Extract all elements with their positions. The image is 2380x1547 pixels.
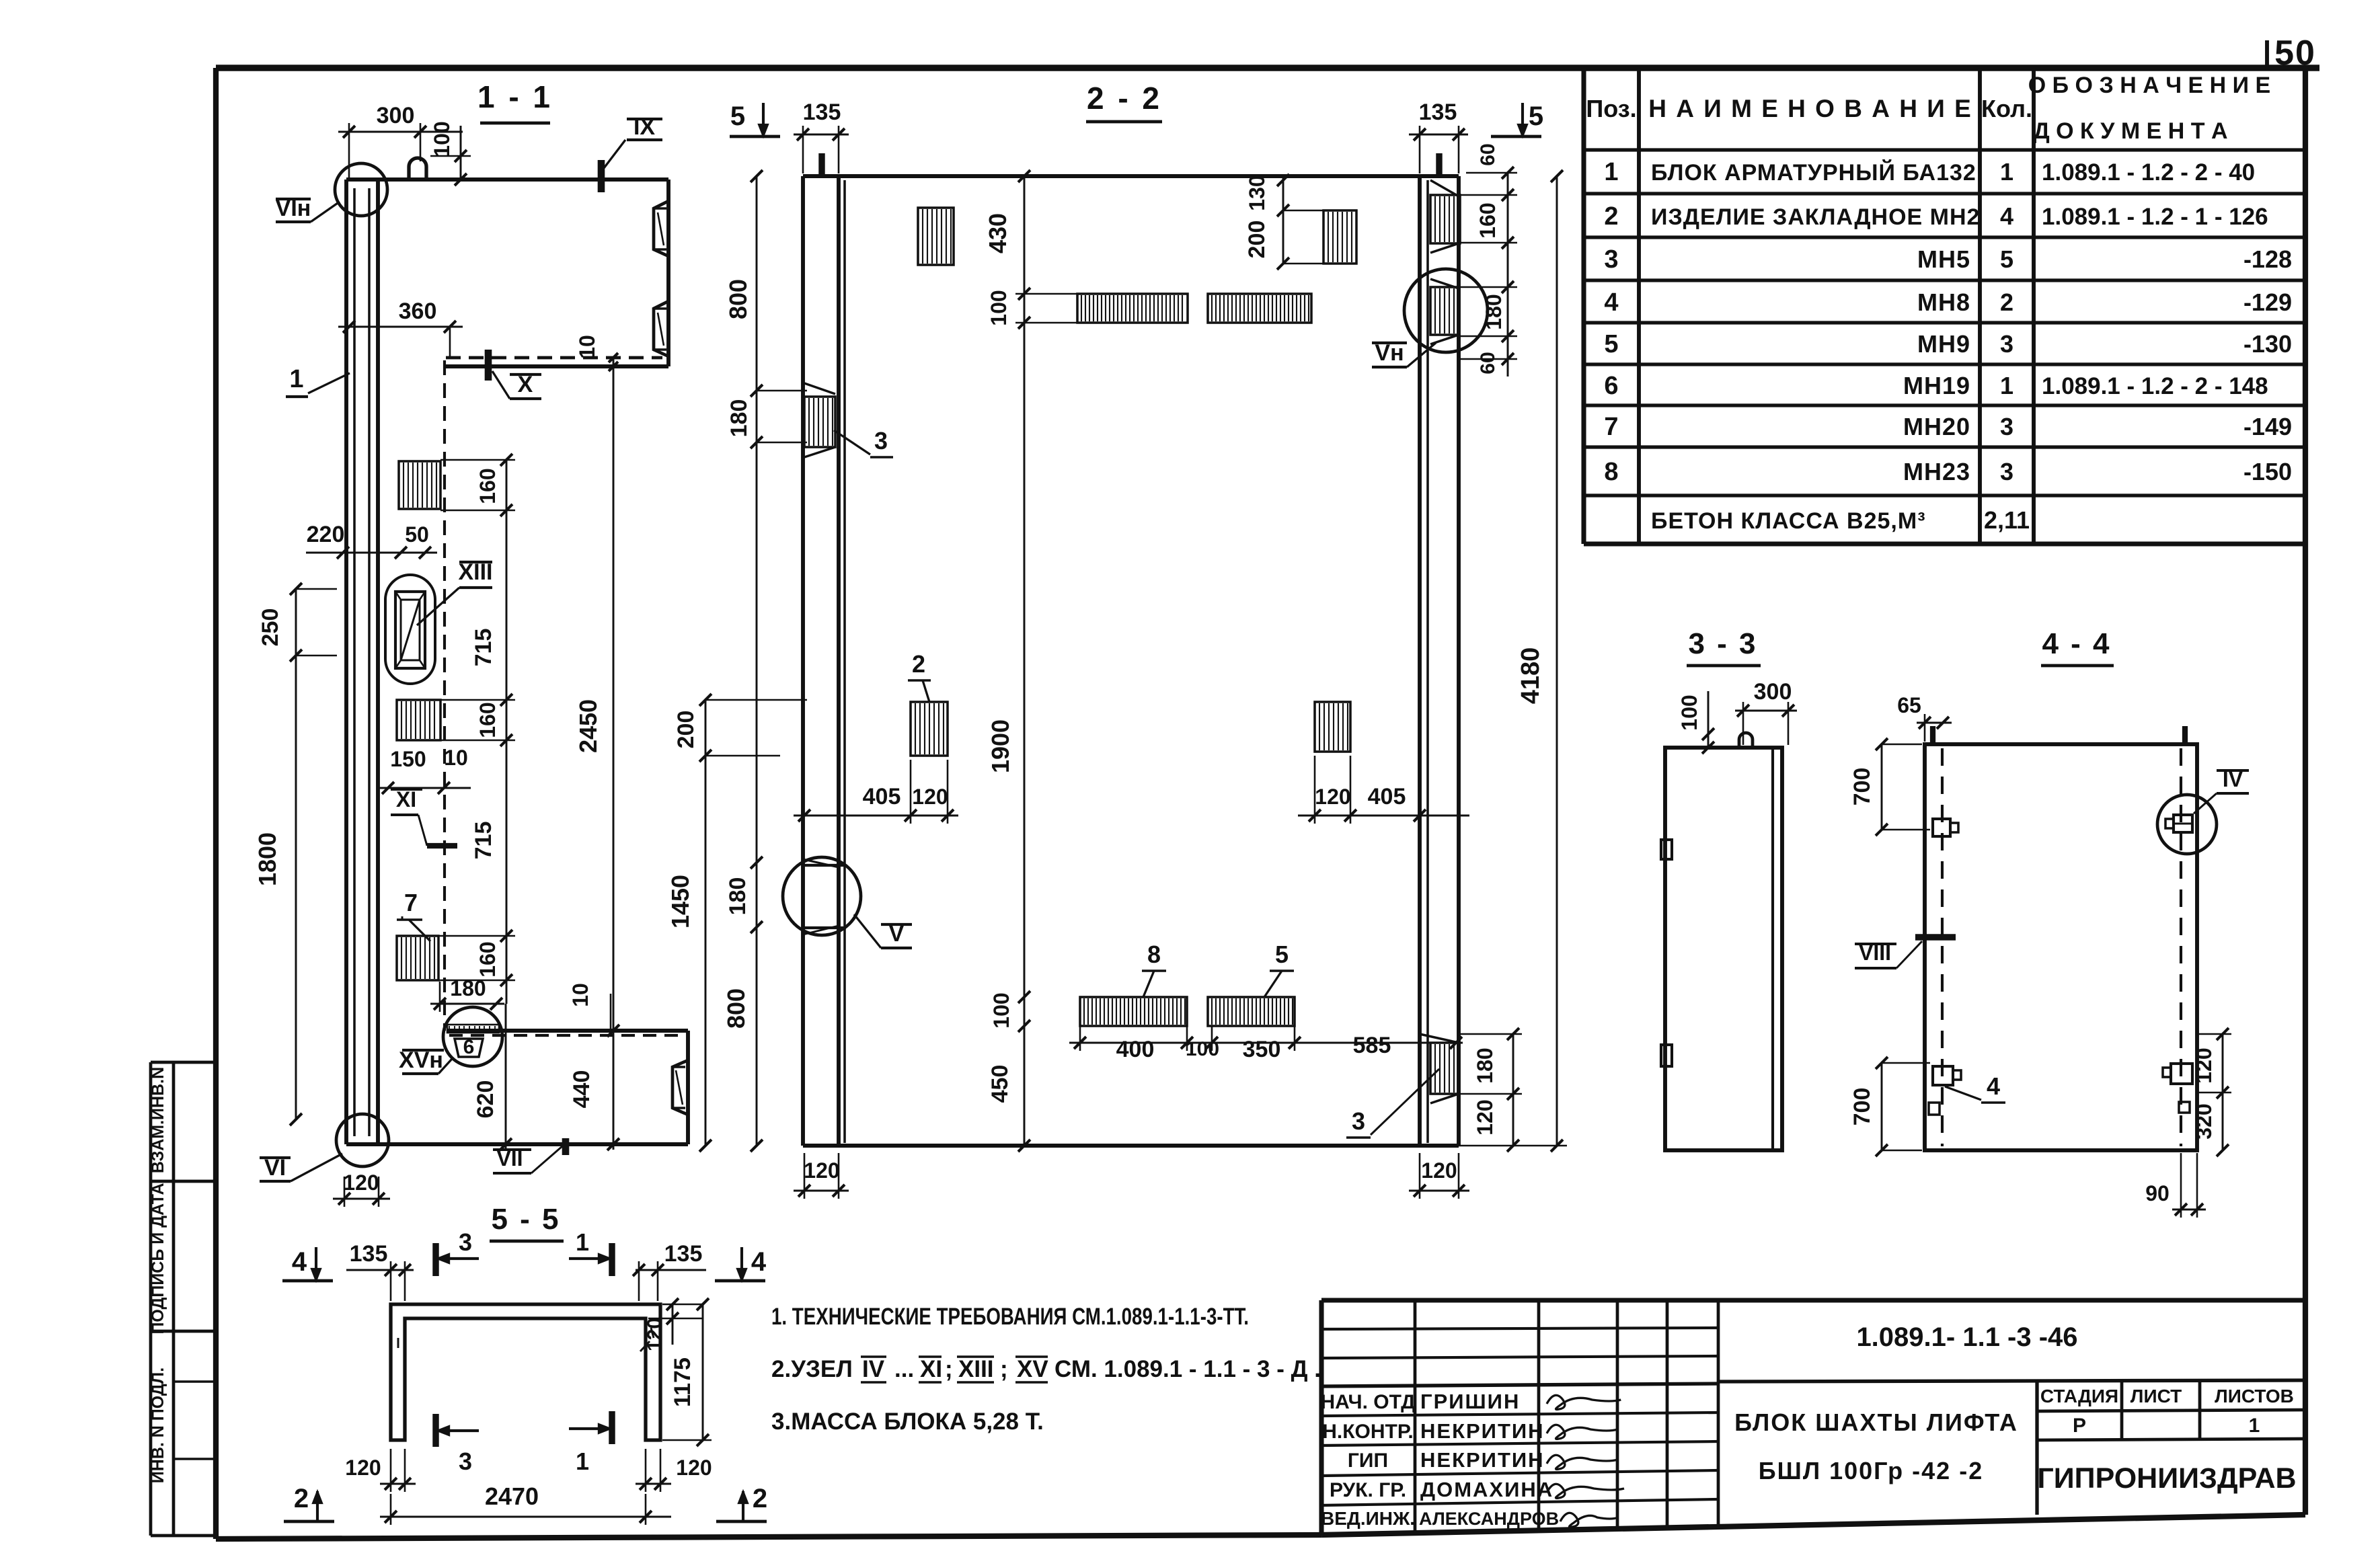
- section 2-2 wide strip upper 1: [1077, 294, 1188, 323]
- svg-text:1.089.1 - 1.2 - 1 - 126: 1.089.1 - 1.2 - 1 - 126: [2042, 204, 2268, 230]
- svg-text:130: 130: [1245, 175, 1269, 210]
- svg-text:10: 10: [568, 983, 592, 1007]
- section 2-2 left inner chain: [756, 176, 758, 1146]
- svg-text:Кол.: Кол.: [1981, 95, 2032, 122]
- section 2-2 dim 400 100 350 585: [1069, 1042, 1463, 1044]
- svg-text:300: 300: [377, 103, 415, 128]
- section 4-4 VIII mark: [1915, 934, 1956, 940]
- svg-text:Р: Р: [2073, 1415, 2086, 1437]
- svg-text:1 - 1: 1 - 1: [477, 79, 553, 114]
- section 5-5 dim 120 bottom left: [380, 1483, 416, 1485]
- section 2-2 right wall chain 60 160 180 60: [1507, 173, 1509, 376]
- parts table grid: [1581, 68, 1586, 544]
- svg-text:320: 320: [2192, 1103, 2216, 1139]
- svg-text:2: 2: [1604, 202, 1618, 231]
- svg-text:МН20: МН20: [1903, 413, 1970, 440]
- svg-text:180: 180: [725, 877, 751, 916]
- section 1-1 dim 150 10: [379, 787, 471, 789]
- section 1-1 dim 220 50: [306, 552, 437, 554]
- svg-text:1: 1: [289, 365, 303, 393]
- svg-text:ДОМАХИНА: ДОМАХИНА: [1420, 1478, 1553, 1501]
- svg-text:60: 60: [1477, 143, 1499, 165]
- svg-text:3.МАССА БЛОКА 5,28 Т.: 3.МАССА БЛОКА 5,28 Т.: [771, 1409, 1044, 1435]
- section 2-2 top edge middle: [839, 174, 1420, 178]
- svg-text:4180: 4180: [1517, 647, 1545, 705]
- svg-text:5 - 5: 5 - 5: [491, 1203, 560, 1236]
- svg-text:120: 120: [2192, 1047, 2216, 1083]
- title block signatures: [1547, 1395, 1621, 1409]
- title block staff rows named: [1321, 1413, 1718, 1416]
- section 5-5 dim 2470: [380, 1516, 671, 1518]
- section 1-1 bottom flange notch: [673, 1060, 688, 1115]
- svg-text:...: ...: [894, 1356, 914, 1382]
- svg-text:2470: 2470: [485, 1482, 539, 1510]
- section 4-4 lifting ticks: [1930, 726, 1935, 744]
- svg-text:200: 200: [673, 711, 699, 749]
- svg-text:3: 3: [459, 1447, 472, 1475]
- section 1-1 X mark: [485, 350, 492, 381]
- section 3-3 dim 100 rot: [1707, 691, 1710, 748]
- svg-text:160: 160: [1475, 202, 1500, 238]
- section 2-2 left outer chain: [705, 700, 707, 1146]
- svg-text:-129: -129: [2243, 288, 2292, 316]
- svg-text:180: 180: [726, 399, 752, 438]
- section 2-2 wide strip lower 2: [1208, 997, 1295, 1026]
- svg-text:5: 5: [1529, 102, 1543, 131]
- svg-text:3 - 3: 3 - 3: [1688, 627, 1757, 660]
- svg-text:1: 1: [2000, 372, 2013, 399]
- svg-text:160: 160: [475, 468, 500, 504]
- svg-text:МН19: МН19: [1903, 372, 1970, 399]
- svg-text:Н А И М Е Н О В А Н И Е: Н А И М Е Н О В А Н И Е: [1648, 95, 1972, 122]
- svg-text:IV: IV: [862, 1356, 885, 1382]
- svg-text:430: 430: [984, 213, 1011, 253]
- section 5-5 dim 1175 rot: [702, 1304, 704, 1440]
- section 2-2 right wall: [1418, 176, 1422, 1146]
- svg-text:4: 4: [751, 1247, 767, 1277]
- section 2-2 dim 405 120 left: [794, 815, 958, 817]
- svg-text:135: 135: [803, 100, 841, 125]
- svg-text:220: 220: [307, 522, 345, 547]
- svg-text:200: 200: [1244, 221, 1270, 259]
- section 5-5 U outline: [391, 1304, 660, 1440]
- section 4-4 outline: [1925, 744, 2197, 1150]
- svg-text:О Б О З Н А Ч Е Н И Е: О Б О З Н А Ч Е Н И Е: [2028, 73, 2270, 98]
- svg-text:585: 585: [1353, 1033, 1391, 1058]
- svg-text:8: 8: [1147, 941, 1161, 968]
- svg-text:МН8: МН8: [1917, 288, 1970, 316]
- svg-text:БШЛ 100Гр -42 -2: БШЛ 100Гр -42 -2: [1759, 1457, 1983, 1484]
- svg-text:-128: -128: [2243, 245, 2292, 273]
- svg-text:НАЧ. ОТД: НАЧ. ОТД: [1320, 1391, 1415, 1413]
- title block doc cell divider: [1718, 1380, 2305, 1382]
- svg-text:90: 90: [2145, 1181, 2170, 1205]
- svg-text:300: 300: [1754, 679, 1792, 705]
- svg-text:Поз.: Поз.: [1586, 95, 1636, 122]
- svg-text:3: 3: [1604, 245, 1618, 274]
- svg-text:120: 120: [1421, 1158, 1457, 1183]
- section 5-5 dim 135 right: [636, 1269, 706, 1271]
- svg-text:100: 100: [1186, 1038, 1219, 1060]
- svg-text:120: 120: [345, 1456, 381, 1480]
- svg-text:3: 3: [459, 1228, 472, 1256]
- section 5-5 mark 3 bottom: [432, 1414, 438, 1447]
- section 3-3 outline: [1665, 748, 1782, 1150]
- section 2-2 V joint lines: [803, 864, 846, 867]
- title block stamp grid: [2035, 1380, 2038, 1515]
- svg-text:1: 1: [576, 1228, 589, 1256]
- left margin strip boxes: [149, 1062, 153, 1536]
- section 2-2 embedded block top right: [1323, 210, 1356, 264]
- svg-text:2 - 2: 2 - 2: [1087, 81, 1162, 116]
- svg-text:3: 3: [2000, 330, 2013, 358]
- section 3-3 dim 300: [1735, 710, 1797, 712]
- svg-text:Н.КОНТР.: Н.КОНТР.: [1322, 1421, 1413, 1443]
- svg-text:120: 120: [1315, 785, 1350, 809]
- svg-text:440: 440: [569, 1070, 594, 1109]
- section 2-2 node circle Vn: [1404, 269, 1488, 352]
- svg-text:6: 6: [463, 1036, 475, 1058]
- svg-text:2,11: 2,11: [1984, 506, 2030, 534]
- title block outline: [1321, 1298, 2305, 1302]
- section 2-2 right wall block top: [1430, 195, 1460, 243]
- section 2-2 right wall lifting tick: [1436, 153, 1442, 176]
- section 1-1 chain 160 715: [506, 460, 508, 1004]
- svg-text:7: 7: [1604, 413, 1618, 441]
- svg-text:800: 800: [722, 988, 750, 1029]
- section 2-2 left wall: [801, 176, 805, 1146]
- svg-text:4 - 4: 4 - 4: [2042, 627, 2111, 660]
- svg-text:БЛОК ШАХТЫ ЛИФТА: БЛОК ШАХТЫ ЛИФТА: [1734, 1409, 2018, 1436]
- svg-text:135: 135: [664, 1241, 703, 1267]
- section 3-3 edge tabs: [1661, 840, 1672, 859]
- svg-text:3: 3: [2000, 458, 2013, 485]
- svg-text:1: 1: [576, 1447, 589, 1475]
- svg-text:10: 10: [444, 746, 468, 770]
- svg-text:180: 180: [1473, 1047, 1497, 1083]
- section 2-2 wide strip upper 2: [1208, 294, 1311, 323]
- svg-text:405: 405: [1368, 784, 1406, 809]
- section 2-2 embedded block top left: [918, 208, 954, 265]
- section 1-1 dim 100 rot: [460, 126, 462, 180]
- svg-text:1.089.1 - 1.2 - 2 - 40: 1.089.1 - 1.2 - 2 - 40: [2042, 159, 2255, 186]
- svg-text:620: 620: [473, 1080, 498, 1119]
- svg-text:ЛИСТ: ЛИСТ: [2131, 1386, 2182, 1406]
- section 4-4 hidden lines: [1941, 748, 1944, 1146]
- section 1-1 bottom edge: [346, 1142, 688, 1146]
- svg-text:СТАДИЯ: СТАДИЯ: [2040, 1386, 2118, 1406]
- svg-text:2: 2: [2000, 288, 2013, 316]
- svg-text:7: 7: [404, 889, 418, 916]
- svg-text:НЕКРИТИН: НЕКРИТИН: [1420, 1448, 1545, 1472]
- svg-text:5: 5: [730, 102, 745, 131]
- svg-text:XIII: XIII: [958, 1356, 994, 1382]
- svg-text:3: 3: [2000, 413, 2013, 440]
- section 1-1 node circle XVn: [443, 1007, 502, 1066]
- section 2-2 chain 4180: [1556, 176, 1558, 1146]
- section 2-2 dim 120 bottom left: [794, 1190, 849, 1192]
- svg-text:СМ. 1.089.1 - 1.1 - 3 - Д .: СМ. 1.089.1 - 1.1 - 3 - Д .: [1054, 1356, 1321, 1382]
- section 1-1 dim 120 bottom: [333, 1198, 390, 1200]
- section 4-4 dim 700 top: [1881, 744, 1883, 830]
- section 2-2 dim 120 bottom right: [1409, 1190, 1469, 1192]
- section 4-4 left embedded symbols: [1933, 819, 1950, 836]
- section 1-1 left chain 250 1800: [295, 589, 297, 1119]
- svg-text:120: 120: [804, 1158, 839, 1183]
- svg-text:120: 120: [912, 785, 948, 809]
- svg-text:ИЗДЕЛИЕ ЗАКЛАДНОЕ МН2: ИЗДЕЛИЕ ЗАКЛАДНОЕ МН2: [1651, 204, 1980, 230]
- section 2-2 wall block left item 3: [804, 397, 835, 447]
- svg-text:1800: 1800: [254, 832, 281, 886]
- svg-text:XI: XI: [920, 1356, 942, 1382]
- svg-text:160: 160: [475, 702, 500, 738]
- svg-text:120: 120: [343, 1171, 379, 1195]
- svg-text:2: 2: [912, 650, 925, 678]
- svg-text:800: 800: [724, 279, 752, 319]
- section 2-2 right wall block bottom item 3: [1430, 1043, 1459, 1094]
- section 2-2 left wall lifting tick: [818, 153, 824, 176]
- svg-text:120: 120: [676, 1456, 712, 1480]
- svg-text:2450: 2450: [574, 699, 602, 753]
- section 1-1 embedded block middle: [397, 700, 440, 740]
- svg-text:1: 1: [1604, 158, 1618, 186]
- svg-text:2: 2: [753, 1484, 767, 1513]
- section 2-2 dim 120 405 right: [1298, 815, 1469, 817]
- section 2-2 embedded block mid right: [1315, 702, 1350, 752]
- svg-text:250: 250: [258, 608, 283, 647]
- section 1-1 niche oval XIII: [385, 575, 435, 684]
- svg-text:1.089.1- 1.1 -3 -46: 1.089.1- 1.1 -3 -46: [1856, 1322, 2077, 1352]
- svg-text:ЛИСТОВ: ЛИСТОВ: [2215, 1386, 2294, 1406]
- section 5-5 dim 120 rot right: [672, 1304, 674, 1345]
- section 2-2 node circle V left: [783, 857, 861, 935]
- svg-text:400: 400: [1116, 1037, 1155, 1062]
- svg-text:6: 6: [1604, 372, 1618, 400]
- section 4-4 dim 700 bottom: [1881, 1063, 1883, 1150]
- svg-text:ИНВ. N ПОДЛ.: ИНВ. N ПОДЛ.: [149, 1367, 167, 1483]
- svg-text:100: 100: [987, 290, 1011, 325]
- svg-text:3: 3: [874, 427, 888, 454]
- svg-text:65: 65: [1897, 693, 1921, 717]
- svg-text:1900: 1900: [987, 719, 1014, 773]
- section 5-5 mark 1 bottom: [609, 1411, 615, 1444]
- svg-text:-130: -130: [2243, 330, 2292, 358]
- svg-text:-149: -149: [2243, 413, 2292, 440]
- svg-text:5: 5: [1604, 330, 1618, 358]
- section 1-1 wall faces: [344, 180, 348, 1144]
- svg-text:4: 4: [292, 1247, 307, 1277]
- svg-text:4: 4: [2000, 202, 2013, 230]
- svg-text:1: 1: [2249, 1415, 2260, 1437]
- svg-text:ПОДПИСЬ И ДАТА: ПОДПИСЬ И ДАТА: [149, 1183, 167, 1334]
- svg-text:2: 2: [294, 1484, 309, 1513]
- svg-text:360: 360: [399, 299, 437, 324]
- svg-text:350: 350: [1243, 1037, 1281, 1062]
- section 4-4 dim 65: [1917, 722, 1952, 724]
- svg-text:450: 450: [987, 1065, 1013, 1103]
- svg-text:100: 100: [1677, 695, 1701, 730]
- svg-text:4: 4: [1604, 288, 1618, 317]
- svg-text:БЕТОН КЛАССА В25,М³: БЕТОН КЛАССА В25,М³: [1651, 508, 1926, 534]
- section 2-2 dim 135 right: [1409, 134, 1468, 136]
- svg-text:700: 700: [1849, 768, 1875, 806]
- section 2-2 embedded block mid left item 2: [911, 702, 948, 756]
- svg-text:1450: 1450: [666, 875, 694, 928]
- section 1-1 embedded block item A: [399, 461, 440, 509]
- section 1-1 node circle VI bottom: [336, 1114, 389, 1166]
- svg-text:120: 120: [644, 1318, 666, 1351]
- section 1-1 XVn strip item 6: [447, 1025, 499, 1033]
- section 1-1 reinforcement block lines: [353, 188, 356, 1136]
- svg-text:50: 50: [2274, 34, 2316, 73]
- page frame border: [216, 65, 2319, 71]
- svg-text:180: 180: [1482, 294, 1506, 329]
- svg-text:160: 160: [475, 941, 500, 977]
- svg-text:135: 135: [350, 1241, 388, 1267]
- section 5-5 mark 3 top: [432, 1243, 438, 1276]
- svg-text:XI: XI: [396, 787, 416, 811]
- svg-text:5: 5: [2000, 245, 2013, 273]
- section 2-2 bottom right chain 180 120: [1512, 1034, 1514, 1146]
- section 1-1 chain 2450: [613, 358, 615, 1150]
- section 2-2 bottom edge: [803, 1144, 1459, 1148]
- svg-text:700: 700: [1849, 1088, 1875, 1126]
- title block staff rows upper: [1321, 1328, 1718, 1329]
- svg-text:ВЕД.ИНЖ.: ВЕД.ИНЖ.: [1321, 1508, 1415, 1529]
- svg-text:120: 120: [1473, 1099, 1497, 1135]
- svg-text:МН9: МН9: [1917, 330, 1970, 358]
- svg-text:150: 150: [390, 747, 426, 771]
- section 5-5 mark 1 top: [609, 1243, 615, 1276]
- svg-text:8: 8: [1604, 458, 1618, 486]
- section 1-1 dim 300: [338, 131, 463, 133]
- svg-text:ГИП: ГИП: [1348, 1450, 1388, 1472]
- svg-text:1175: 1175: [670, 1357, 695, 1407]
- page number 50: [2265, 40, 2269, 70]
- section 1-1 dim 360: [338, 326, 463, 328]
- svg-text:135: 135: [1419, 100, 1457, 125]
- section 1-1 bottom flange: [447, 1029, 688, 1033]
- svg-text:;: ;: [1000, 1356, 1008, 1382]
- section 1-1 embedded block item 7: [397, 936, 438, 980]
- section 1-1 IX mark: [598, 160, 605, 192]
- svg-text:715: 715: [471, 822, 496, 860]
- section 1-1 node circle VIn top: [335, 163, 387, 216]
- svg-text:10: 10: [575, 335, 599, 359]
- svg-text:;: ;: [945, 1356, 953, 1382]
- section 1-1 lifting loop: [409, 158, 426, 180]
- section 1-1 right notches: [654, 201, 668, 256]
- svg-text:2.УЗЕЛ: 2.УЗЕЛ: [771, 1356, 853, 1382]
- section 1-1 VII mark: [562, 1138, 570, 1155]
- section 4-4 right embedded symbols: [2174, 815, 2192, 832]
- svg-text:НЕКРИТИН: НЕКРИТИН: [1420, 1419, 1545, 1443]
- svg-text:1: 1: [2000, 158, 2013, 186]
- title block staff columns: [1414, 1300, 1417, 1532]
- svg-text:1.089.1 - 1.2 - 2 - 148: 1.089.1 - 1.2 - 2 - 148: [2042, 373, 2268, 399]
- section 2-2 middle chain 430 100 1900 100 450: [1024, 176, 1026, 1146]
- svg-text:180: 180: [450, 976, 486, 1000]
- svg-text:XV: XV: [1017, 1356, 1048, 1382]
- svg-text:ГИПРОНИИЗДРАВ: ГИПРОНИИЗДРАВ: [2037, 1462, 2296, 1495]
- section 4-4 chain 120 320 right: [2222, 1034, 2224, 1150]
- svg-text:1. ТЕХНИЧЕСКИЕ ТРЕБОВАНИЯ СМ: 1. ТЕХНИЧЕСКИЕ ТРЕБОВАНИЯ СМ.1.089.1-1.1…: [771, 1304, 1249, 1330]
- section 4-4 dim 90: [2172, 1209, 2206, 1211]
- svg-text:БЛОК АРМАТУРНЫЙ БА132: БЛОК АРМАТУРНЫЙ БА132: [1651, 159, 1976, 186]
- svg-text:5: 5: [1275, 941, 1289, 968]
- svg-text:60: 60: [1477, 352, 1499, 374]
- svg-text:100: 100: [989, 992, 1013, 1028]
- section 2-2 dim 135 left: [794, 134, 849, 136]
- section 3-3 lifting loop: [1739, 733, 1753, 748]
- svg-text:ВЗАМ.ИНВ.N: ВЗАМ.ИНВ.N: [149, 1067, 167, 1173]
- section 1-1 dim 180 bottom: [430, 1003, 504, 1005]
- svg-text:715: 715: [471, 629, 496, 667]
- svg-text:3: 3: [1352, 1107, 1365, 1135]
- section 2-2 wide strip lower 1: [1080, 997, 1187, 1026]
- svg-text:50: 50: [405, 522, 429, 547]
- section 4-4 node circle IV: [2157, 795, 2217, 854]
- svg-text:МН5: МН5: [1917, 245, 1970, 273]
- section 5-5 inner leg marks: [397, 1338, 399, 1348]
- svg-text:АЛЕКСАНДРОВ: АЛЕКСАНДРОВ: [1419, 1509, 1559, 1529]
- svg-text:РУК. ГР.: РУК. ГР.: [1330, 1479, 1406, 1501]
- svg-text:ГРИШИН: ГРИШИН: [1420, 1390, 1520, 1413]
- section 1-1 top flange outline: [346, 177, 668, 182]
- section 5-5 dim 135 left: [346, 1269, 414, 1271]
- svg-text:100: 100: [430, 121, 454, 157]
- svg-text:МН23: МН23: [1903, 458, 1970, 485]
- section 2-2 right wall block circled: [1430, 287, 1459, 335]
- svg-text:4: 4: [1987, 1072, 2000, 1100]
- svg-text:-150: -150: [2243, 458, 2292, 485]
- svg-text:Д О К У М Е Н Т А: Д О К У М Е Н Т А: [2033, 118, 2227, 144]
- svg-text:405: 405: [863, 784, 901, 809]
- section 2-2 chain 130 200 top right: [1282, 176, 1284, 264]
- section 5-5 dim 120 bottom right: [636, 1483, 671, 1485]
